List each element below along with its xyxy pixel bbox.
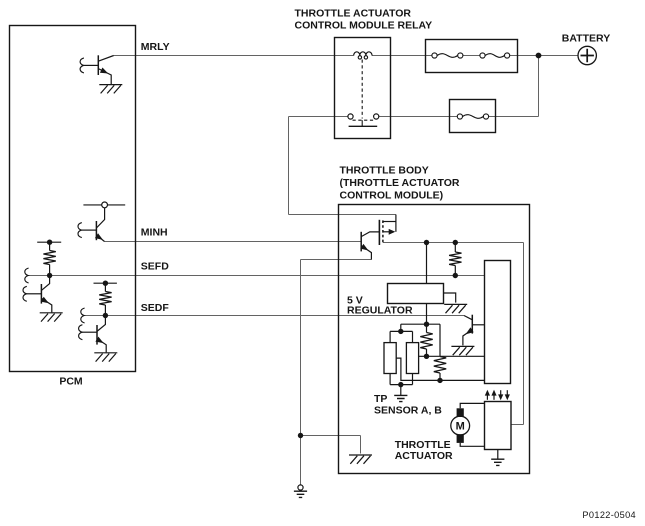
svg-text:REGULATOR: REGULATOR <box>347 305 413 317</box>
svg-text:MRLY: MRLY <box>141 41 170 53</box>
svg-text:P0122-0504: P0122-0504 <box>582 510 636 520</box>
svg-text:THROTTLE BODY: THROTTLE BODY <box>340 164 429 176</box>
svg-text:M: M <box>456 421 465 433</box>
svg-text:(THROTTLE ACTUATOR: (THROTTLE ACTUATOR <box>340 177 460 189</box>
svg-text:SEFD: SEFD <box>141 260 169 272</box>
svg-text:MINH: MINH <box>141 226 168 238</box>
svg-text:SENSOR A, B: SENSOR A, B <box>374 404 442 416</box>
svg-text:THROTTLE ACTUATOR: THROTTLE ACTUATOR <box>295 8 412 20</box>
svg-text:CONTROL MODULE): CONTROL MODULE) <box>340 189 444 201</box>
svg-text:ACTUATOR: ACTUATOR <box>395 450 453 462</box>
svg-text:SEDF: SEDF <box>141 302 170 314</box>
svg-text:PCM: PCM <box>59 376 83 388</box>
svg-text:TP: TP <box>374 393 387 405</box>
svg-text:CONTROL MODULE RELAY: CONTROL MODULE RELAY <box>295 20 433 32</box>
svg-text:BATTERY: BATTERY <box>562 32 610 44</box>
